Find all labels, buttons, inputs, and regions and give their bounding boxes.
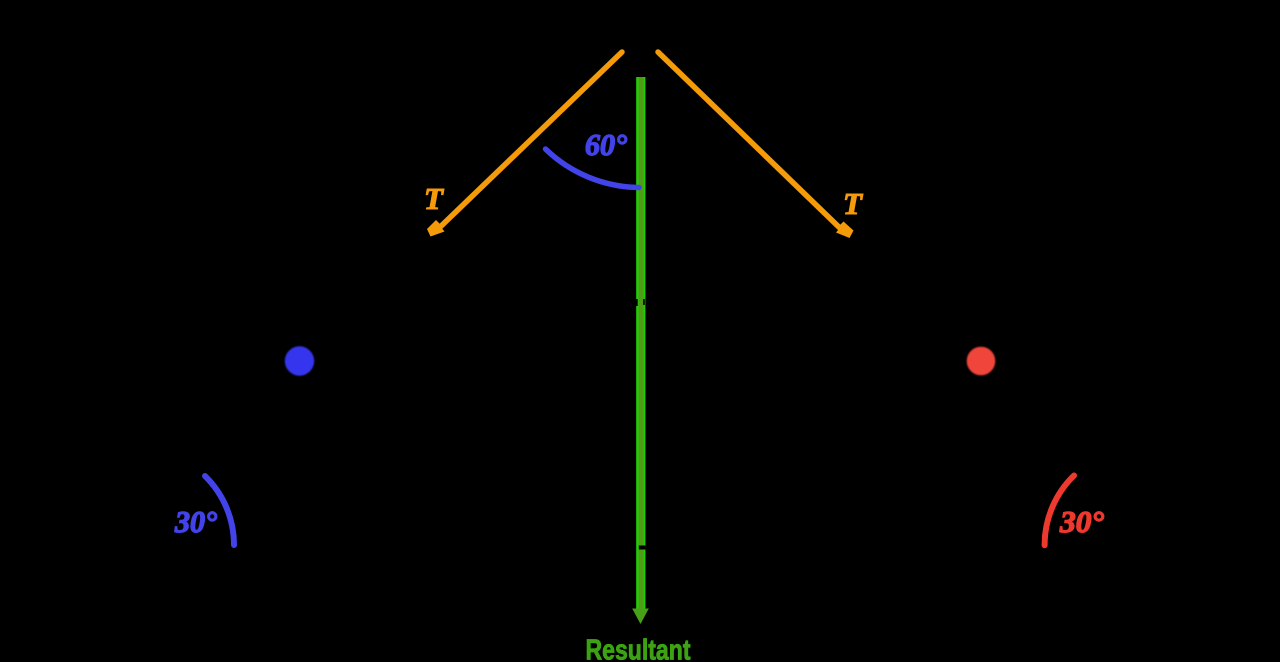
node: blue mass dot [285,346,314,375]
svg-text:Resultant: Resultant [586,635,691,662]
svg-text:T: T [843,186,863,221]
angle arc 60 degrees (blue) [546,149,640,188]
svg-text:30°: 30° [1059,504,1105,539]
angle arc 30 degrees (right, red) [1045,476,1074,546]
node: red mass dot [967,347,996,376]
svg-text:30°: 30° [174,504,218,539]
tension vector T1 (left rope) wire [427,52,622,237]
angle arc 30 degrees (left, blue) [205,476,234,545]
svg-text:T: T [424,181,444,216]
tension vector T2 (right rope) wire [658,52,854,238]
svg-text:60°: 60° [585,127,628,162]
resultant vector (green, downward) [632,77,649,624]
